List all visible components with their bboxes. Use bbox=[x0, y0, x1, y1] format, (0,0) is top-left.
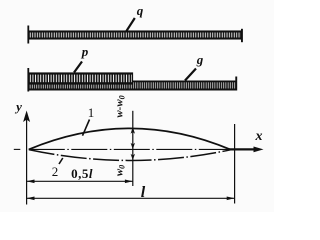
leader to 2 bbox=[59, 158, 63, 164]
right extension line bbox=[234, 124, 236, 204]
label w0 rotated bbox=[115, 159, 126, 183]
arrow down at axis bbox=[131, 143, 135, 150]
distributed load g band bbox=[29, 81, 236, 90]
leader to p bbox=[74, 62, 82, 73]
dimension line 0,5l bbox=[27, 180, 133, 182]
label 0,5l bbox=[68, 166, 96, 182]
label l bbox=[136, 184, 150, 202]
label y bbox=[12, 99, 26, 115]
distributed load p band bbox=[29, 73, 133, 84]
arrow down at curve2 bbox=[131, 154, 135, 161]
label 1 bbox=[84, 105, 98, 121]
arrow up at arc bbox=[131, 127, 135, 134]
centre dimension line bbox=[132, 111, 134, 186]
label q bbox=[133, 3, 147, 19]
label p bbox=[78, 44, 92, 60]
label 2 bbox=[48, 164, 62, 180]
label x bbox=[251, 129, 267, 145]
curve 1 deflection arc bbox=[29, 128, 231, 149]
dimension line l bbox=[27, 197, 235, 199]
bar2 left end cap bbox=[27, 68, 29, 92]
bar1 left end cap bbox=[27, 26, 29, 44]
bar1 right end cap bbox=[241, 29, 243, 42]
leader to g bbox=[185, 69, 196, 81]
bar2 right end cap bbox=[235, 77, 237, 91]
leader to q bbox=[126, 18, 135, 31]
leader to 1 bbox=[83, 120, 90, 136]
x axis centre line (dash-dot) bbox=[14, 148, 20, 150]
label g bbox=[193, 52, 207, 68]
label w-w0 rotated bbox=[115, 89, 126, 125]
curve 2 initial shape (dash-dot) bbox=[29, 150, 231, 161]
distributed load q band bbox=[29, 31, 242, 39]
x axis arrow bbox=[228, 148, 256, 150]
y axis bbox=[26, 113, 28, 205]
